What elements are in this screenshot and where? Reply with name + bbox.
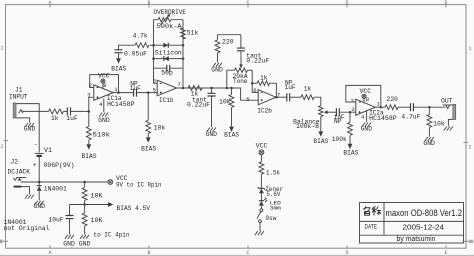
ground under 220 — [211, 63, 223, 74]
node diode2 right — [182, 57, 185, 60]
op-amp IC1a — [94, 85, 135, 108]
potentiometer Balance 100k-B — [293, 106, 329, 132]
svg-text:6: 6 — [253, 87, 256, 94]
resistor 10k to bias IC1b — [146, 93, 166, 138]
svg-text:10K: 10K — [91, 217, 103, 224]
svg-text:7: 7 — [177, 81, 180, 88]
resistor 1k mid — [188, 86, 202, 98]
resistor 220 output — [385, 96, 410, 110]
svg-text:500k-A: 500k-A — [157, 23, 182, 30]
capacitor 4.7uF output — [401, 103, 445, 121]
title block box — [360, 203, 464, 244]
op-amp IC1b — [157, 80, 176, 104]
svg-text:INPUT: INPUT — [9, 94, 28, 101]
bias arrow below 0.05uF — [111, 58, 126, 72]
svg-text:GND: GND — [206, 131, 218, 138]
ground under 1N4001 — [34, 201, 46, 210]
ground under 10k output — [423, 137, 435, 147]
svg-text:DCJACK: DCJACK — [8, 168, 31, 175]
scan edge bottom — [0, 254, 474, 256]
svg-text:BIAS: BIAS — [111, 65, 126, 72]
svg-text:0.22uF: 0.22uF — [187, 102, 210, 109]
resistor 51k — [181, 28, 199, 39]
ground IC1a pin4 — [98, 98, 110, 123]
svg-text:GND: GND — [34, 203, 46, 210]
ground under switch — [255, 231, 264, 235]
svg-text:GND: GND — [79, 241, 91, 248]
svg-text:4.7uF: 4.7uF — [401, 114, 420, 121]
wire J1 tip to 1k — [22, 110, 49, 112]
node tant cap junction — [210, 87, 213, 90]
pin labels IC1a — [87, 82, 118, 108]
pin labels IC2a — [351, 96, 381, 121]
bias arrow below 510k — [82, 144, 97, 160]
svg-text:1k: 1k — [260, 74, 268, 81]
svg-text:DATE: DATE — [365, 225, 378, 231]
svg-text:GND: GND — [211, 66, 223, 73]
op-amp IC2b — [257, 90, 275, 115]
battery V1 006P 9V — [33, 141, 75, 182]
svg-text:9V to IC 8pin: 9V to IC 8pin — [116, 181, 162, 188]
resistor 1.5k — [259, 162, 280, 189]
node diode row right — [182, 44, 185, 47]
wire IC1b output row — [177, 88, 259, 100]
diode LED 3mm — [259, 198, 281, 212]
svg-text:0.22uF: 0.22uF — [246, 57, 269, 64]
svg-text:5.6V: 5.6V — [266, 191, 280, 198]
power VCC IC2a pin8 — [360, 88, 372, 104]
svg-text:1N4001: 1N4001 — [44, 185, 67, 192]
resistor 220 to gnd — [215, 35, 241, 63]
node 10K top — [83, 181, 86, 184]
svg-text:220: 220 — [386, 96, 398, 103]
diode Zener 5.6V — [258, 186, 284, 201]
wire IC1a feedback loop — [90, 75, 119, 93]
svg-text:GND: GND — [361, 125, 373, 132]
connector J1 INPUT jack — [13, 103, 29, 123]
svg-text:4.7k: 4.7k — [133, 32, 148, 39]
resistor 510k — [86, 111, 110, 144]
power VCC LED string — [256, 143, 268, 162]
svg-text:GND: GND — [63, 241, 75, 248]
resistor 10k output — [427, 107, 445, 136]
ground under 10K — [79, 235, 91, 248]
svg-text:VCC: VCC — [98, 73, 110, 80]
node diode row left — [152, 44, 155, 47]
bias arrow below 100k — [343, 144, 358, 157]
svg-text:10k: 10k — [154, 125, 166, 132]
svg-text:3: 3 — [87, 92, 90, 99]
potentiometer OVERDRIVE 500k-A — [154, 9, 187, 30]
svg-text:J1: J1 — [15, 86, 23, 93]
title text — [365, 208, 463, 243]
node output 10k junction — [428, 106, 431, 109]
svg-text:10k: 10k — [219, 98, 231, 105]
svg-text:1k: 1k — [51, 115, 59, 122]
ground under J2 — [25, 195, 34, 199]
zone letters bottom — [48, 245, 447, 255]
svg-text:-: - — [34, 141, 38, 148]
bias arrow below 10k mid — [224, 127, 239, 139]
node input bias junction — [88, 110, 91, 113]
svg-text:100k: 100k — [332, 136, 347, 143]
svg-text:GND: GND — [24, 126, 36, 133]
capacitor tant 0.22uF tone — [237, 35, 270, 65]
svg-text:BIAS: BIAS — [224, 132, 239, 139]
svg-text:1k: 1k — [304, 86, 312, 93]
capacitor 50p — [154, 65, 184, 77]
op-amp IC2a — [356, 99, 397, 122]
svg-text:not Original: not Original — [4, 225, 50, 232]
wire tone pot right leg — [252, 70, 258, 92]
svg-text:NP: NP — [334, 118, 342, 125]
svg-text:OUT: OUT — [441, 97, 453, 104]
svg-text:100k-B: 100k-B — [296, 123, 319, 130]
svg-text:1: 1 — [1, 46, 4, 52]
title kanji 名称 — [364, 206, 381, 215]
node IC1b pin5 junction — [147, 91, 150, 94]
power VCC 9V symbol — [108, 175, 162, 188]
node IC2a output — [380, 106, 383, 109]
svg-text:+: + — [33, 162, 37, 169]
wire tone pot left leg — [227, 70, 235, 88]
svg-text:Tone: Tone — [233, 78, 248, 85]
bias 4.5V arrow — [108, 202, 150, 212]
wire overdrive left rail — [153, 20, 155, 84]
svg-text:J2: J2 — [11, 158, 19, 165]
resistor 10k mid to bias — [219, 88, 234, 127]
svg-text:10uF: 10uF — [49, 216, 64, 223]
svg-text:GND: GND — [423, 140, 435, 147]
svg-text:2: 2 — [351, 98, 354, 105]
svg-text:10k: 10k — [433, 121, 445, 128]
node 10k mid junction — [230, 87, 233, 90]
wire bias node — [70, 204, 109, 206]
resistor 100k to bias — [332, 112, 353, 144]
connector J2 DCJACK — [8, 158, 31, 194]
resistor 4.7k — [119, 32, 154, 49]
capacitor 1uF NP after IC2b — [285, 80, 301, 102]
wire IC2b output — [276, 96, 287, 98]
svg-text:0.05uF: 0.05uF — [124, 50, 147, 57]
pin labels IC2b — [246, 87, 280, 103]
svg-text:9sw: 9sw — [265, 215, 276, 222]
capacitor tant 0.22uF to gnd — [187, 88, 216, 127]
svg-text:2: 2 — [1, 144, 4, 150]
diode silicon D1 — [154, 43, 184, 57]
svg-text:1uF: 1uF — [285, 84, 296, 91]
ground under tant — [206, 128, 218, 138]
row labels — [0, 46, 473, 244]
svg-text:VCC: VCC — [360, 88, 372, 95]
wire overdrive right rail — [182, 20, 184, 88]
capacitor 1uF NP coupling — [130, 81, 157, 97]
capacitor 0.05uF — [115, 50, 148, 59]
switch power — [257, 209, 277, 231]
svg-text:2005-12-24: 2005-12-24 — [403, 222, 445, 231]
zone letters top — [48, 0, 447, 7]
resistor 1k input — [49, 109, 64, 122]
svg-text:50p: 50p — [161, 69, 173, 76]
svg-text:10K: 10K — [91, 192, 103, 199]
bias arrow below 10k — [141, 137, 156, 152]
capacitor 1uF input — [64, 107, 89, 121]
svg-text:VCC: VCC — [256, 143, 268, 150]
svg-text:HC1458P: HC1458P — [107, 101, 135, 108]
ground under OUT jack — [444, 127, 453, 131]
node feedback 1k left — [251, 82, 254, 85]
svg-text:006P(9V): 006P(9V) — [44, 162, 75, 169]
pin labels IC1b — [153, 77, 181, 93]
resistor 10K upper divider — [82, 182, 103, 205]
ground under 10uF — [63, 235, 75, 248]
node tone left junction — [226, 87, 229, 90]
diode silicon D2 — [154, 56, 184, 61]
svg-text:5: 5 — [153, 87, 156, 94]
svg-text:2: 2 — [469, 145, 472, 151]
bias arrow below balance — [313, 131, 328, 144]
svg-text:Silicon: Silicon — [155, 49, 182, 56]
svg-text:OVERDRIVE: OVERDRIVE — [154, 9, 187, 16]
svg-text:51k: 51k — [187, 30, 199, 37]
svg-text:5: 5 — [246, 96, 249, 103]
node IC1a output — [117, 91, 120, 94]
ground under J1 — [24, 123, 36, 133]
svg-text:BIAS 4.5V: BIAS 4.5V — [117, 205, 151, 212]
wire IC1a output — [113, 92, 133, 94]
wire IC1b pin6 stub — [154, 82, 158, 84]
potentiometer 20kA Tone — [233, 56, 253, 85]
svg-text:BIAS: BIAS — [343, 150, 358, 157]
node IC2b output — [275, 96, 278, 99]
connector OUT jack — [441, 97, 456, 126]
node right rail to output — [182, 87, 185, 90]
wire 9V rail — [21, 181, 108, 183]
wire node to IC1a pin3 — [89, 97, 94, 111]
svg-text:BIAS: BIAS — [313, 138, 328, 145]
node diode2 left — [152, 57, 155, 60]
power VCC IC1a pin8 — [98, 73, 110, 89]
wire J1 ring to battery — [16, 104, 39, 153]
note 1N4001 not original — [4, 219, 50, 232]
diode 1N4001 — [37, 182, 67, 200]
svg-text:BIAS: BIAS — [82, 153, 97, 160]
node battery diode junction — [38, 181, 41, 184]
svg-text:BIAS: BIAS — [141, 145, 156, 152]
svg-text:510k: 510k — [93, 131, 111, 138]
resistor 10K lower divider — [82, 205, 103, 235]
node bias 4.5V junction — [83, 203, 86, 206]
svg-text:by matsumin: by matsumin — [397, 234, 436, 243]
svg-text:1: 1 — [469, 46, 472, 52]
svg-text:3: 3 — [351, 106, 354, 113]
resistor 1k to balance — [301, 86, 321, 106]
svg-text:IC1b: IC1b — [159, 97, 174, 104]
capacitor 1uF NP wiper — [329, 108, 356, 125]
node IC2a pin3 junction — [349, 111, 352, 114]
ground IC2a pin4 — [361, 111, 373, 132]
svg-text:1uF: 1uF — [66, 115, 78, 122]
svg-text:maxon OD-808 Ver1.2: maxon OD-808 Ver1.2 — [386, 208, 463, 218]
capacitor 10uF bias — [49, 205, 74, 235]
svg-text:1.5k: 1.5k — [266, 170, 280, 177]
svg-text:3mm: 3mm — [270, 205, 282, 212]
wire IC2a output — [375, 106, 385, 108]
svg-text:220: 220 — [222, 38, 234, 45]
svg-text:HC1458P: HC1458P — [369, 115, 397, 122]
wire IC2a feedback loop — [346, 85, 381, 107]
svg-text:V1: V1 — [44, 147, 52, 154]
svg-text:to IC 4pin: to IC 4pin — [94, 232, 130, 239]
svg-text:IC2b: IC2b — [257, 107, 272, 114]
resistor 1k feedback IC2b — [252, 74, 276, 97]
svg-text:1uF: 1uF — [130, 85, 141, 92]
svg-text:GND: GND — [98, 117, 110, 124]
